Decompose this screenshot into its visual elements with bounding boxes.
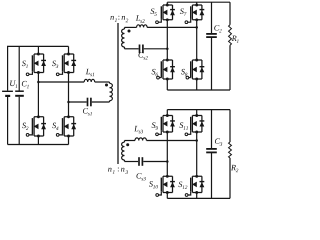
label S7 <box>180 8 187 15</box>
label R1 <box>232 36 239 43</box>
transistor S6 <box>157 59 175 81</box>
wire top rail (input bridge) <box>8 45 69 47</box>
label S2 <box>22 123 28 130</box>
transistor S5 <box>156 4 175 24</box>
label n1:n3 <box>108 168 128 174</box>
label Ls2 <box>136 15 145 22</box>
node B junction <box>67 101 70 104</box>
wire leg C mid (S5-S6) <box>166 20 168 60</box>
wire S5 drain lead <box>166 2 168 5</box>
capacitor C2 <box>206 34 217 37</box>
label S8 <box>181 69 187 76</box>
wire leg F mid (S11-S12) <box>196 132 198 176</box>
label Ls3 <box>134 126 143 133</box>
wire sec3 top lead <box>125 140 136 142</box>
transistor S11 <box>185 114 204 136</box>
wire top rail (bridge 2) <box>167 1 230 3</box>
wire node A to Ls1 <box>38 81 84 83</box>
primary polarity dot <box>105 84 108 87</box>
wire S6 source lead <box>166 79 168 90</box>
wire leg A mid (S1-S2) <box>37 73 39 117</box>
wire S9 drain lead <box>166 110 168 116</box>
wire S10 source lead <box>166 193 168 199</box>
secondary 3 polarity dot <box>126 143 129 146</box>
wire Cs1 to primary <box>92 101 110 103</box>
secondary 2 winding <box>122 27 125 48</box>
label Cs2 <box>138 52 147 59</box>
wire C3 top lead <box>211 110 213 148</box>
secondary 2 polarity dot <box>128 30 131 33</box>
label S1 <box>22 61 28 68</box>
wire bottom rail (input bridge) <box>8 144 69 146</box>
label Cs3 <box>136 173 145 180</box>
wire Ls2 to node C <box>147 26 197 28</box>
wire S1 drain lead <box>37 46 39 54</box>
label Ls1 <box>86 69 95 76</box>
label S3 <box>52 61 58 68</box>
capacitor Cs3 <box>139 157 142 166</box>
transformer core <box>117 23 119 164</box>
wire Ls1 to primary <box>95 81 110 83</box>
label S5 <box>150 8 156 15</box>
node D junction <box>166 48 169 51</box>
label C1 <box>22 81 29 88</box>
resistor R2 <box>229 142 232 158</box>
label S6 <box>152 69 158 76</box>
label R2 <box>231 165 238 172</box>
wire top rail (bridge 3) <box>167 109 230 111</box>
node E junction <box>195 139 198 142</box>
wire C3 bottom lead <box>211 153 213 198</box>
wire S2 source lead <box>37 136 39 145</box>
inductor Ls1 <box>84 79 95 82</box>
node C junction <box>195 26 198 29</box>
wire C1 top lead <box>18 46 20 90</box>
node A junction <box>37 81 40 84</box>
wire S12 source lead <box>196 193 198 199</box>
wire C2 top lead <box>211 2 213 33</box>
label C2 <box>214 25 221 32</box>
wire C1 bottom lead <box>18 97 20 145</box>
secondary 3 winding <box>122 141 125 162</box>
transistor S2 <box>26 115 46 137</box>
transistor S3 <box>56 53 76 76</box>
wire C2 bottom lead <box>211 38 213 90</box>
label S10 <box>149 181 158 188</box>
transistor S12 <box>185 175 204 196</box>
label S12 <box>178 182 187 189</box>
wire S4 source lead <box>68 136 70 145</box>
label C3 <box>215 138 222 145</box>
wire U1 bottom lead <box>7 97 9 145</box>
capacitor Cs1 <box>88 98 91 107</box>
capacitor C1 <box>15 91 24 96</box>
label U1 <box>10 81 17 88</box>
transformer primary winding <box>110 82 113 102</box>
resistor R1 <box>229 25 232 45</box>
node F junction <box>166 160 169 163</box>
inductor Ls2 <box>137 25 148 28</box>
transistor S1 <box>26 53 46 76</box>
label S11 <box>179 122 187 129</box>
wire R2 top lead <box>229 110 231 142</box>
label S4 <box>52 123 58 130</box>
wire R1 top lead <box>229 2 231 25</box>
wire node B to Cs1 <box>69 101 87 103</box>
transistor S7 <box>185 4 204 24</box>
wire bottom rail (bridge 3) <box>167 197 230 199</box>
battery U1 <box>2 91 13 96</box>
capacitor C3 <box>206 149 217 153</box>
wire S3 drain lead <box>68 46 70 54</box>
wire U1 top lead <box>7 46 9 91</box>
transistor S8 <box>186 59 204 81</box>
label n1:n2 <box>110 16 128 22</box>
wire sec3 bottom lead <box>125 161 139 163</box>
wire leg D mid (S7-S8) <box>196 20 198 60</box>
wire sec2 bottom lead <box>125 48 139 50</box>
inductor Ls3 <box>135 138 146 141</box>
wire Cs3 to node F <box>143 161 167 163</box>
transistor S4 <box>56 115 76 137</box>
wire S7 drain lead <box>196 2 198 5</box>
wire Cs2 to node D <box>144 48 168 50</box>
wire S8 source lead <box>196 79 198 90</box>
capacitor Cs2 <box>140 45 143 54</box>
wire S11 drain lead <box>196 110 198 116</box>
wire R1 bottom lead <box>229 45 231 90</box>
wire bottom rail (bridge 2) <box>167 89 230 91</box>
label Cs1 <box>83 108 92 115</box>
wire sec2 top lead <box>125 26 137 28</box>
wire leg B mid (S3-S4) <box>68 73 70 117</box>
transistor S10 <box>156 175 175 196</box>
wire Ls3 to node E <box>147 140 197 142</box>
wire leg E mid (S9-S10) <box>166 132 168 176</box>
label S9 <box>152 122 158 129</box>
transistor S9 <box>156 114 175 136</box>
wire R2 bottom lead <box>229 158 231 198</box>
